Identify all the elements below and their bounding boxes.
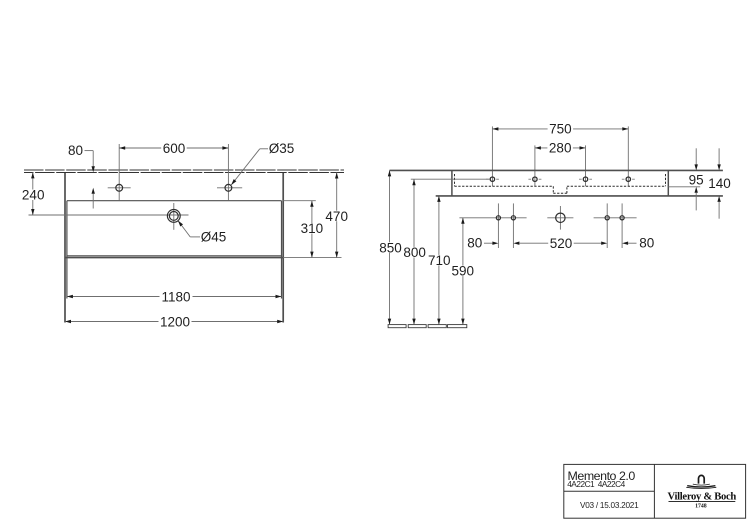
tap hole right (plan): [225, 184, 232, 191]
fixing holes left pair: [496, 216, 500, 220]
wordmark underline: [669, 500, 736, 502]
dimension 310 bowl depth: [283, 200, 316, 202]
svg-text:710: 710: [428, 253, 451, 268]
svg-text:95: 95: [689, 172, 704, 187]
dimension 600 between tap holes: [119, 147, 228, 149]
title block frame: [564, 464, 746, 518]
dimension 470 basin depth: [283, 257, 341, 259]
extension line: 590 level / fixing holes horizontal: [459, 217, 526, 219]
title block vertical divider: [653, 464, 655, 518]
svg-text:520: 520: [550, 236, 573, 251]
centre line: drain horizontal (240 extension): [29, 214, 189, 216]
fixing holes right pair: [605, 216, 609, 220]
dimension 1200 outer width: [65, 321, 283, 323]
floor tile line: [388, 325, 406, 328]
side view: basin left edge: [451, 170, 453, 196]
basin plan: outer bottom edge: [65, 257, 283, 259]
svg-text:Ø35: Ø35: [269, 141, 295, 156]
basin plan: outer left edge + extension: [64, 172, 66, 323]
dimension 1180 inner width: [67, 296, 282, 298]
Villeroy & Boch logo arch: [699, 475, 705, 483]
svg-text:80: 80: [639, 236, 654, 251]
side view: rim top line with extensions: [390, 169, 723, 171]
label diameter 45 with leader: [178, 221, 190, 237]
svg-text:V03 / 15.03.2021: V03 / 15.03.2021: [580, 501, 639, 510]
overflow/centre hole: [556, 213, 565, 222]
svg-text:470: 470: [325, 209, 348, 224]
centre line: drain vertical: [173, 203, 175, 230]
drain hole (plan): [167, 210, 180, 223]
side view: hidden drain recess dashed: [552, 186, 554, 193]
basin plan: bowl inner left edge + extension: [66, 201, 68, 299]
svg-text:600: 600: [163, 141, 186, 156]
svg-text:240: 240: [22, 188, 45, 203]
basin plan: bowl inner bottom edge: [67, 255, 282, 257]
basin plan: bowl inner top edge: [67, 200, 282, 202]
svg-text:1180: 1180: [161, 289, 190, 304]
svg-text:1748: 1748: [695, 503, 707, 509]
svg-text:4A22C1 4A22C4: 4A22C1 4A22C4: [567, 479, 625, 489]
centre line: right tap hole horizontal: [217, 187, 242, 189]
side view: basin right edge: [667, 170, 669, 196]
svg-text:140: 140: [708, 176, 731, 191]
dimension 240 wall to drain centre: [32, 172, 34, 215]
dimension 590 floor to fixing holes: [462, 218, 464, 325]
svg-text:Ø45: Ø45: [201, 230, 227, 245]
dimension 95 rim to hidden bottom: [695, 148, 697, 164]
extension line: right tap hole vertical: [227, 144, 229, 200]
label diameter 35 with leader: [260, 148, 268, 150]
svg-text:800: 800: [403, 245, 426, 260]
svg-text:80: 80: [467, 236, 482, 251]
extension line: left tap hole vertical: [118, 144, 120, 200]
svg-text:280: 280: [549, 141, 572, 156]
dimension 750 outer tap holes: [492, 128, 628, 130]
basin plan: bowl inner right edge + extension: [281, 201, 283, 299]
wall tile line above basin: [24, 170, 344, 172]
extension line: 800 level: [411, 178, 490, 180]
svg-text:590: 590: [452, 264, 475, 279]
side view: bottom line with extensions: [436, 195, 723, 197]
Villeroy & Boch logo dish: [693, 484, 710, 485]
svg-text:80: 80: [68, 143, 83, 158]
svg-text:310: 310: [301, 221, 324, 236]
side view: hidden bowl bottom dashed: [454, 174, 456, 186]
dimension 710 floor to underside: [438, 196, 440, 325]
svg-text:Villeroy & Boch: Villeroy & Boch: [668, 491, 737, 502]
dimension 140 basin height: [718, 148, 720, 164]
dimension 800 floor to tap hole level: [413, 179, 415, 324]
dimension 280 inner tap holes: [535, 147, 586, 149]
side view: extension lines for upper holes: [491, 126, 493, 186]
title block horizontal divider: [564, 490, 655, 492]
svg-text:850: 850: [379, 240, 402, 255]
basin plan: outer right edge + extension: [282, 172, 284, 323]
tap hole left (plan): [116, 184, 123, 191]
dimension 850 floor to rim: [389, 170, 391, 324]
svg-text:1200: 1200: [160, 314, 190, 329]
fixing hole vertical centre lines: [497, 203, 499, 248]
centre line: left tap hole horizontal: [108, 187, 131, 189]
side view: tap holes on rim: [486, 178, 489, 180]
svg-text:750: 750: [549, 122, 572, 137]
